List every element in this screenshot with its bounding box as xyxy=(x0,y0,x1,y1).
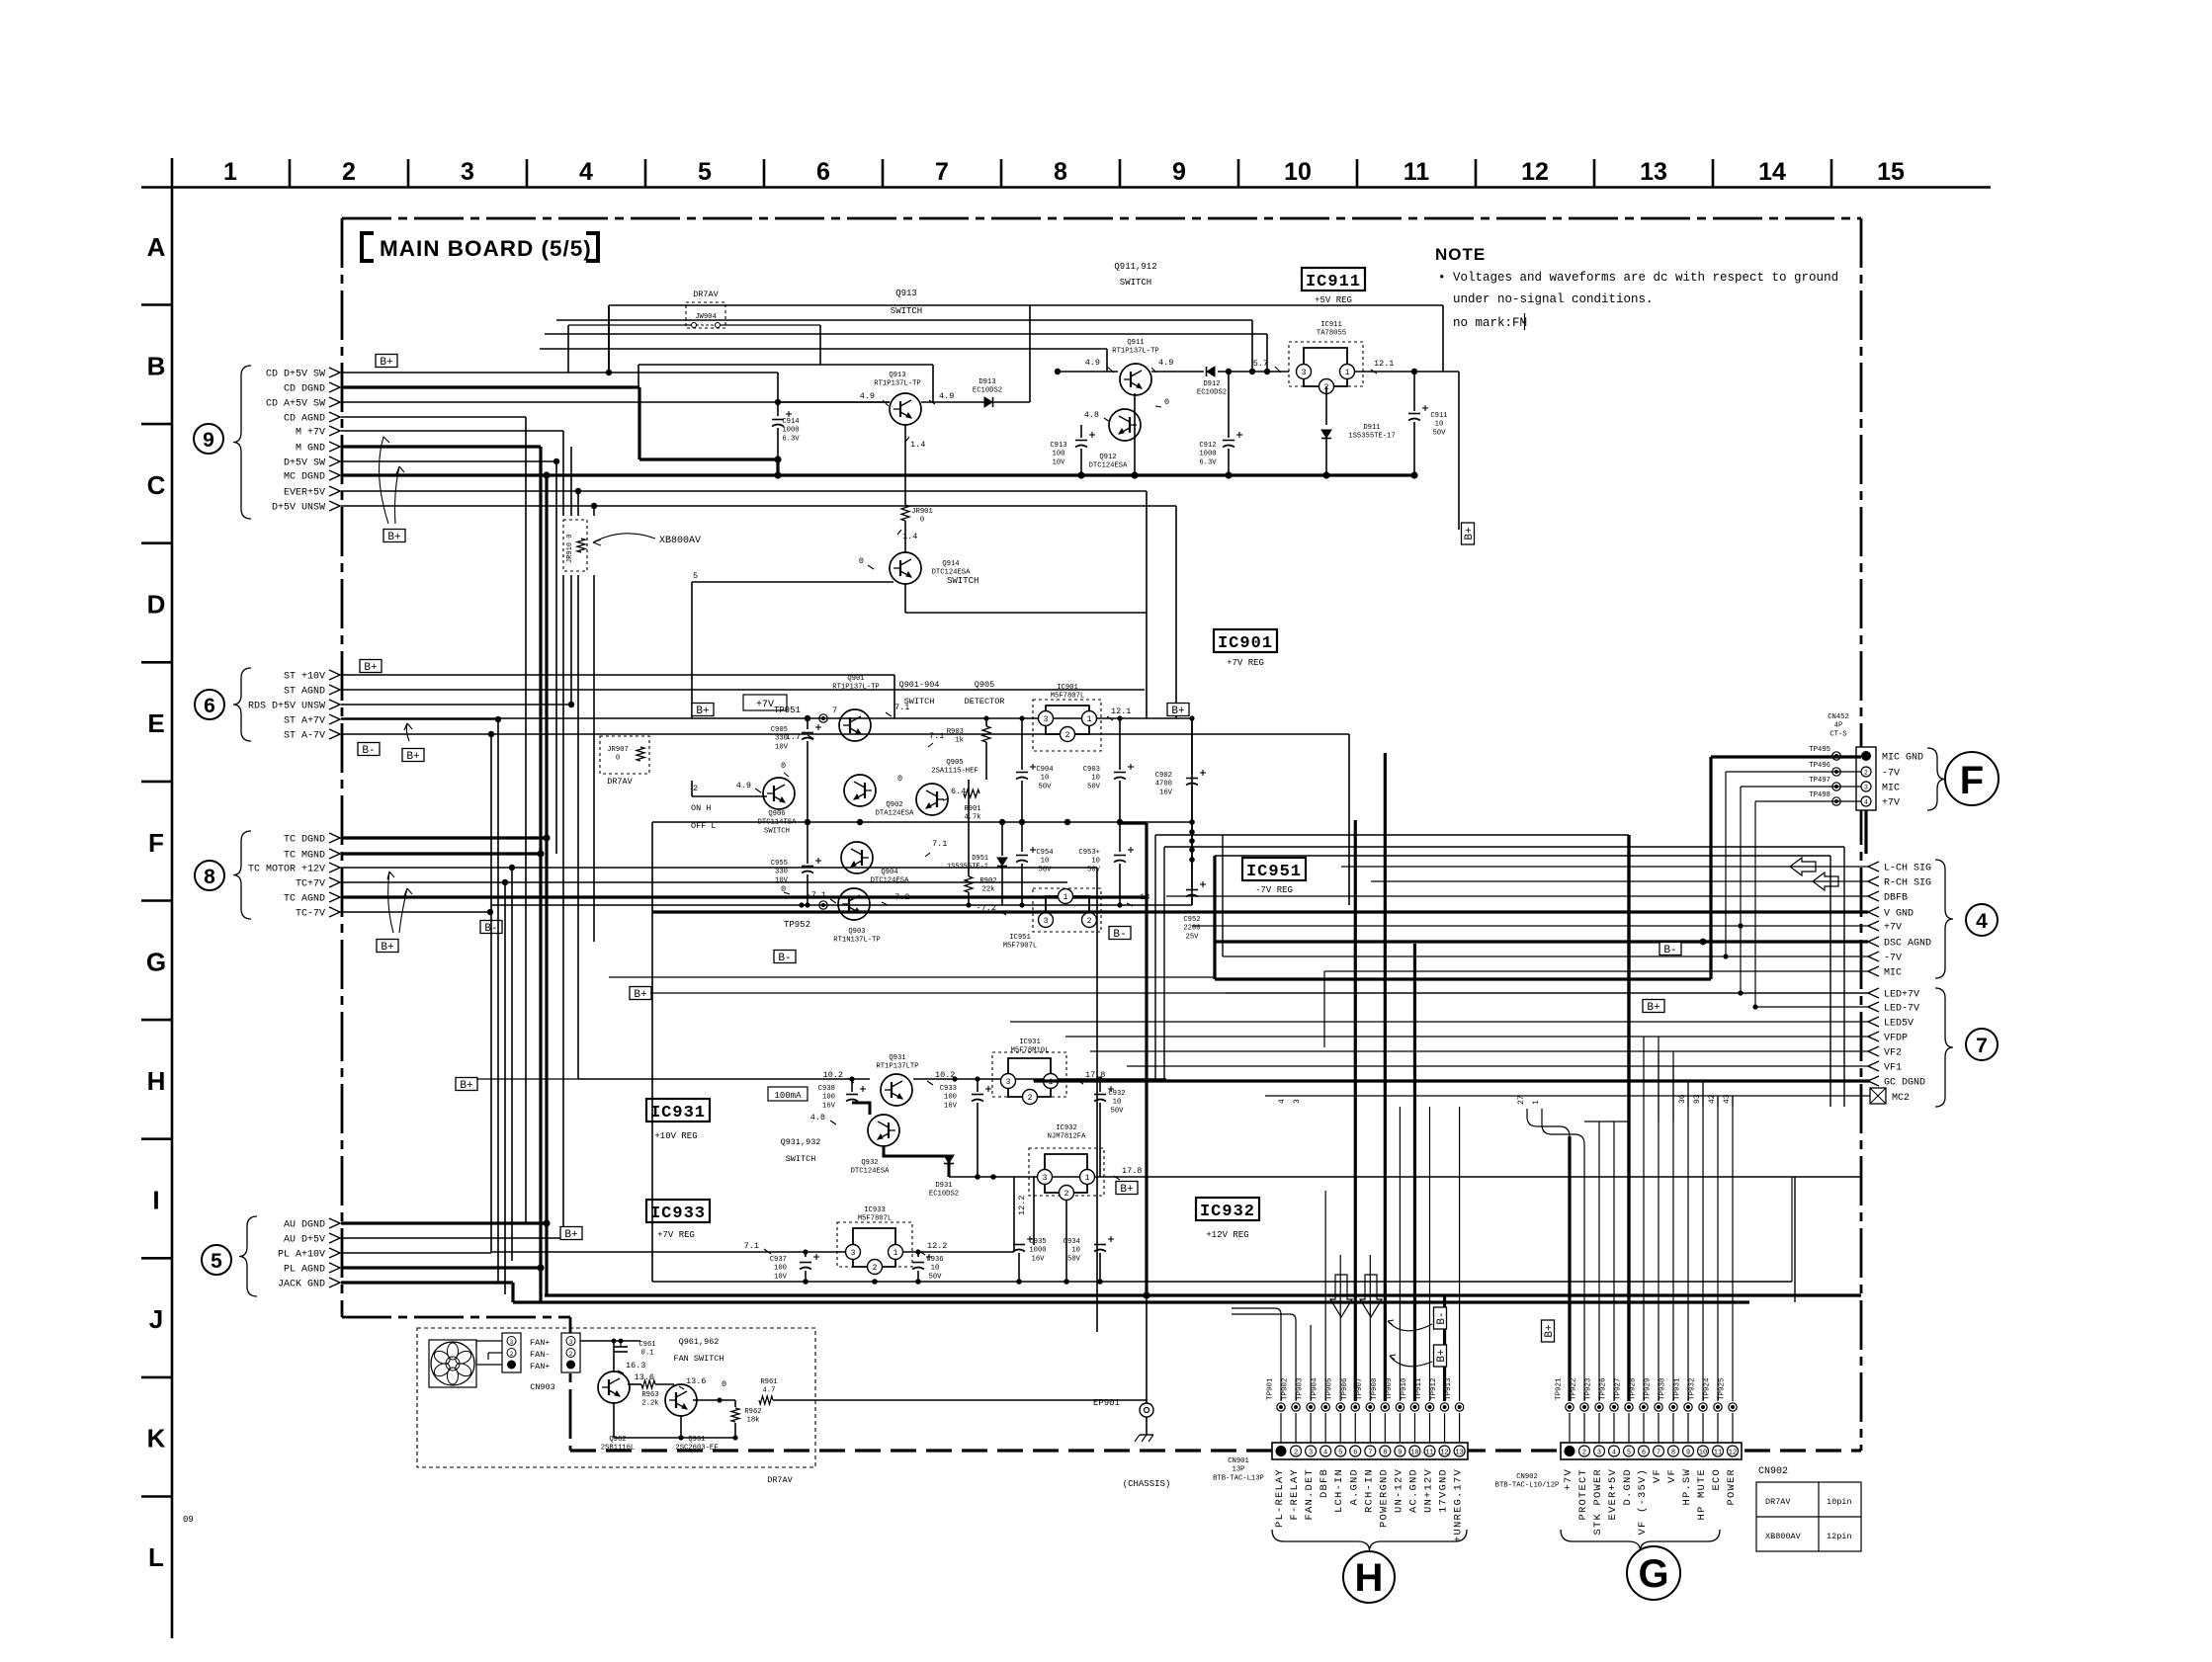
svg-text:10: 10 xyxy=(1091,775,1100,783)
svg-text:2: 2 xyxy=(873,1264,878,1273)
svg-text:JR910 0: JR910 0 xyxy=(566,535,574,563)
CN902 pin 9 HP.SW xyxy=(1683,1446,1694,1456)
svg-text:DTC124ESA: DTC124ESA xyxy=(1089,462,1129,470)
svg-text:6: 6 xyxy=(816,158,830,186)
CN902 pin 6 VF (-35V) xyxy=(1639,1446,1650,1456)
CN901 pin 11 UN+12V xyxy=(1424,1446,1435,1456)
svg-text:2SC2603-EF: 2SC2603-EF xyxy=(675,1445,718,1453)
wires fan switch xyxy=(628,1383,641,1385)
svg-text:10.2: 10.2 xyxy=(823,1070,843,1080)
svg-text:4700: 4700 xyxy=(1155,781,1172,789)
top ruler ticks xyxy=(289,159,292,188)
terminal -7V (group 4) xyxy=(1868,952,1879,961)
wire ST A+7V joins +7V rail xyxy=(341,718,498,720)
transistor Q905 detector xyxy=(916,784,948,815)
capacitor C903 xyxy=(1119,718,1121,770)
svg-text:EVER+5V: EVER+5V xyxy=(284,488,325,499)
hollow arrow L-CH (points left) xyxy=(1790,858,1816,875)
svg-text:TP495: TP495 xyxy=(1809,746,1830,754)
svg-text:0: 0 xyxy=(616,755,620,763)
wire B- stub xyxy=(796,948,909,950)
svg-text:7: 7 xyxy=(1976,1035,1988,1057)
svg-text:DBFB: DBFB xyxy=(1884,893,1908,904)
group 7 circle xyxy=(1966,1029,1998,1060)
svg-text:17VGND: 17VGND xyxy=(1438,1468,1450,1513)
bottom bus row I xyxy=(652,1281,1792,1283)
svg-text:DTC124ESA: DTC124ESA xyxy=(871,877,910,885)
group4 wire +7V xyxy=(1192,925,1868,927)
svg-text:11: 11 xyxy=(1714,1450,1722,1457)
svg-text:C: C xyxy=(147,470,166,500)
svg-text:TP931: TP931 xyxy=(1674,1377,1682,1400)
svg-text:2SB1116L: 2SB1116L xyxy=(601,1445,636,1453)
svg-text:+7V REG: +7V REG xyxy=(657,1230,695,1240)
svg-text:TP926: TP926 xyxy=(1600,1377,1608,1400)
svg-text:8: 8 xyxy=(1383,1450,1387,1457)
svg-text:G: G xyxy=(1638,1552,1668,1596)
pointer arrows group8 xyxy=(387,872,394,933)
svg-text:ST +10V: ST +10V xyxy=(284,672,325,683)
capacitor C904 xyxy=(1021,718,1023,770)
svg-text:TP903: TP903 xyxy=(1297,1377,1305,1400)
svg-text:under no-signal conditions.: under no-signal conditions. xyxy=(1453,292,1654,306)
svg-text:TP932: TP932 xyxy=(1689,1377,1697,1400)
svg-text:6: 6 xyxy=(1642,1450,1646,1457)
LED5V long wire vertical xyxy=(1009,1022,1011,1079)
flag B- below group 6 xyxy=(358,743,380,758)
svg-text:8: 8 xyxy=(1054,158,1067,186)
svg-text:3: 3 xyxy=(1293,1099,1302,1104)
riser pin number labels with bends xyxy=(1527,1109,1570,1136)
svg-text:3: 3 xyxy=(1302,369,1307,377)
svg-text:Q931,932: Q931,932 xyxy=(781,1137,821,1147)
svg-text:TP907: TP907 xyxy=(1356,1377,1364,1400)
svg-text:Q932: Q932 xyxy=(861,1159,878,1167)
svg-text:• Voltages and waveforms are d: • Voltages and waveforms are dc with res… xyxy=(1438,271,1838,285)
svg-text:4: 4 xyxy=(1612,1450,1616,1457)
wire Q931 collector to IC931 pkg xyxy=(913,1078,1166,1080)
svg-text:IC951: IC951 xyxy=(1009,934,1031,942)
svg-text:TP952: TP952 xyxy=(784,920,810,930)
svg-text:MC DGND: MC DGND xyxy=(284,472,325,483)
svg-text:4.9: 4.9 xyxy=(736,781,751,790)
svg-text:7: 7 xyxy=(1657,1450,1660,1457)
wire down right of IC911 xyxy=(1458,372,1460,530)
svg-text:4.9: 4.9 xyxy=(939,391,954,401)
svg-text:3: 3 xyxy=(461,158,474,186)
svg-text:09: 09 xyxy=(183,1515,194,1525)
svg-text:TP925: TP925 xyxy=(1719,1377,1727,1400)
svg-text:VF1: VF1 xyxy=(1884,1063,1902,1074)
svg-text:M5F7807L: M5F7807L xyxy=(1051,693,1085,701)
svg-text:Q913: Q913 xyxy=(895,289,917,298)
svg-text:50V: 50V xyxy=(1039,866,1053,873)
svg-text:3: 3 xyxy=(1597,1450,1601,1457)
svg-text:8: 8 xyxy=(204,866,215,888)
svg-text:4.7: 4.7 xyxy=(763,1387,776,1395)
svg-text:3: 3 xyxy=(1043,1174,1048,1183)
svg-text:C955: C955 xyxy=(771,860,788,868)
wire Q911 row xyxy=(1058,371,1118,373)
svg-text:-7.1: -7.1 xyxy=(807,890,826,900)
pointer arrow group6 xyxy=(404,723,412,741)
transistor Q911 xyxy=(1120,364,1151,395)
wire D+5V UNSW xyxy=(341,505,1176,507)
svg-text:NJM7812FA: NJM7812FA xyxy=(1048,1133,1087,1141)
svg-text:M GND: M GND xyxy=(296,444,325,455)
svg-text:FAN-: FAN- xyxy=(530,1350,550,1360)
terminal MIC (group 4) xyxy=(1868,966,1879,976)
svg-text:4: 4 xyxy=(1323,1450,1327,1457)
svg-text:2: 2 xyxy=(1864,770,1868,777)
svg-text:M +7V: M +7V xyxy=(296,428,325,439)
wire EVER+5V xyxy=(341,490,1147,492)
svg-text:IC931: IC931 xyxy=(650,1104,706,1122)
wire IC933 out xyxy=(903,1251,1014,1253)
CN452 stem xyxy=(1864,810,1867,854)
svg-text:0: 0 xyxy=(920,517,924,525)
svg-text:12: 12 xyxy=(1440,1450,1448,1457)
svg-text:25V: 25V xyxy=(1186,933,1200,941)
svg-text:5: 5 xyxy=(1338,1450,1342,1457)
svg-text:DETECTOR: DETECTOR xyxy=(965,697,1005,706)
svg-text:10: 10 xyxy=(1435,421,1444,429)
connector group 6 circle xyxy=(195,690,224,719)
svg-text:EC10DS2: EC10DS2 xyxy=(973,387,1002,395)
svg-text:TP498: TP498 xyxy=(1809,791,1830,799)
svg-text:Q902: Q902 xyxy=(886,801,902,809)
svg-text:1S5355TE-1: 1S5355TE-1 xyxy=(947,864,988,872)
svg-text:EC10DS2: EC10DS2 xyxy=(1197,389,1227,397)
svg-text:LED-7V: LED-7V xyxy=(1884,1004,1919,1015)
IC911 label box xyxy=(1302,268,1365,291)
resistor R901 xyxy=(964,789,979,797)
wire TC DGND (thick) xyxy=(341,836,547,839)
svg-text:SWITCH: SWITCH xyxy=(764,827,790,835)
svg-text:C961: C961 xyxy=(638,1341,655,1349)
svg-text:R-CH SIG: R-CH SIG xyxy=(1884,878,1931,889)
connector group 6 brace xyxy=(233,668,251,741)
I-row bus (B+ 17.8) xyxy=(949,1176,1861,1178)
svg-text:D913: D913 xyxy=(978,378,995,386)
svg-text:FAN.DET: FAN.DET xyxy=(1304,1468,1316,1521)
svg-text:10V: 10V xyxy=(775,876,789,884)
svg-text:RT1P137LTP: RT1P137LTP xyxy=(876,1063,918,1071)
group7 wire LED-7V xyxy=(1755,1006,1868,1008)
svg-text:TC MOTOR +12V: TC MOTOR +12V xyxy=(248,865,325,875)
wire 5 into Q914 xyxy=(692,581,893,583)
svg-text:AU DGND: AU DGND xyxy=(284,1220,325,1231)
svg-text:8: 8 xyxy=(1671,1450,1675,1457)
group 4 circle xyxy=(1966,904,1998,936)
svg-text:C913: C913 xyxy=(1050,442,1066,450)
svg-text:12.1: 12.1 xyxy=(1111,706,1131,716)
svg-text:NOTE: NOTE xyxy=(1435,245,1486,264)
capacitor C937 xyxy=(805,1252,807,1257)
svg-text:IC933: IC933 xyxy=(864,1206,886,1214)
wire PL AGND (thick) xyxy=(341,1266,541,1269)
group7 wire VF1 xyxy=(1127,1065,1868,1067)
terminal +7V (group 4) xyxy=(1868,921,1879,931)
capacitor C914 xyxy=(777,402,779,416)
svg-text:330: 330 xyxy=(775,735,788,743)
svg-text:0: 0 xyxy=(1164,397,1169,407)
svg-text:9: 9 xyxy=(1172,158,1186,186)
svg-text:0: 0 xyxy=(781,761,786,771)
group4 wire DSC AGND thick xyxy=(1215,940,1868,943)
wire ST +10V xyxy=(341,674,894,676)
transistor Q931 xyxy=(881,1074,912,1106)
svg-text:PL AGND: PL AGND xyxy=(284,1265,325,1276)
svg-text:1: 1 xyxy=(1085,1174,1090,1183)
svg-text:11: 11 xyxy=(1425,1450,1433,1457)
svg-text:10: 10 xyxy=(931,1265,940,1273)
wire Q913 emitter to D913 xyxy=(921,401,984,403)
svg-text:Q903: Q903 xyxy=(848,928,865,936)
resistor R903 xyxy=(985,718,987,726)
svg-text:16.3: 16.3 xyxy=(626,1361,645,1371)
svg-text:6: 6 xyxy=(1353,1450,1357,1457)
svg-text:27: 27 xyxy=(1517,1095,1526,1105)
terminal DBFB (group 4) xyxy=(1868,891,1879,901)
svg-text:IC901: IC901 xyxy=(1218,634,1273,653)
CN452 pin 1 MIC GND xyxy=(1861,751,1871,761)
svg-text:4P: 4P xyxy=(1834,722,1843,730)
svg-text:F: F xyxy=(1960,759,1984,802)
svg-text:100: 100 xyxy=(944,1094,957,1102)
svg-text:ON H: ON H xyxy=(691,803,711,813)
svg-text:IC911: IC911 xyxy=(1306,273,1361,291)
svg-text:-7V: -7V xyxy=(1884,954,1902,964)
transistor Q902 xyxy=(844,775,876,806)
svg-text:C902: C902 xyxy=(1155,772,1172,780)
IC932 pin2 down xyxy=(1065,1201,1067,1282)
svg-text:C914: C914 xyxy=(782,418,799,426)
IC933 label box xyxy=(646,1200,710,1222)
terminal R-CH SIG (group 4) xyxy=(1868,876,1879,886)
op-amp IC911 package (TA78055 regulator) xyxy=(1289,342,1363,386)
CN901 pin 6 A.GND xyxy=(1350,1446,1361,1456)
svg-text:TP908: TP908 xyxy=(1371,1377,1379,1400)
svg-text:2: 2 xyxy=(1087,917,1092,926)
flag B+ near CN901 xyxy=(1434,1345,1449,1367)
svg-text:MIC GND: MIC GND xyxy=(1882,753,1923,764)
svg-text:50V: 50V xyxy=(1087,866,1101,873)
DBFB vertical xyxy=(1165,896,1167,1079)
capacitor C938 xyxy=(851,1079,853,1092)
wire bundle right-middle nest xyxy=(1145,823,1148,1295)
group4 wire L-CH xyxy=(1341,866,1868,868)
title MAIN BOARD (5/5) xyxy=(362,233,374,261)
svg-text:10: 10 xyxy=(1041,775,1050,783)
wire AU DGND (thick) xyxy=(341,1221,547,1224)
svg-text:100: 100 xyxy=(774,1265,787,1273)
svg-text:D912: D912 xyxy=(1203,380,1220,388)
svg-text:MAIN BOARD (5/5): MAIN BOARD (5/5) xyxy=(380,236,592,261)
flag B+ rotated below IC911 output xyxy=(1462,523,1477,544)
svg-text:PL-RELAY: PL-RELAY xyxy=(1274,1468,1286,1528)
svg-text:TC DGND: TC DGND xyxy=(284,835,325,846)
svg-text:Q904: Q904 xyxy=(881,869,897,876)
svg-text:DSC AGND: DSC AGND xyxy=(1884,939,1931,950)
interface circle G xyxy=(1627,1546,1680,1600)
svg-text:TP929: TP929 xyxy=(1645,1377,1653,1400)
svg-text:L: L xyxy=(148,1542,164,1572)
capacitor C954 xyxy=(1021,822,1023,852)
svg-text:TP496: TP496 xyxy=(1809,762,1830,770)
svg-text:C954: C954 xyxy=(1036,849,1053,857)
svg-text:+12V REG: +12V REG xyxy=(1206,1230,1248,1240)
svg-text:1000: 1000 xyxy=(1029,1247,1046,1255)
JR907 jumper dashed box xyxy=(600,736,649,774)
terminal V GND (group 4) xyxy=(1868,907,1879,917)
CN901 pin 9 UN-12V xyxy=(1395,1446,1405,1456)
svg-text:FAN+: FAN+ xyxy=(530,1338,550,1348)
svg-text:G: G xyxy=(146,947,166,976)
svg-text:10V: 10V xyxy=(775,743,789,751)
svg-text:4: 4 xyxy=(579,158,593,186)
svg-text:B-: B- xyxy=(362,745,375,757)
svg-text:SWITCH: SWITCH xyxy=(786,1154,816,1164)
svg-text:CT-S: CT-S xyxy=(1829,730,1846,738)
CN902 pin 2 PROTECT xyxy=(1579,1446,1590,1456)
svg-text:12.2: 12.2 xyxy=(1017,1196,1027,1215)
middle emitter bus xyxy=(652,821,1192,823)
test point TP495 xyxy=(1832,752,1840,760)
svg-text:VF (-35V): VF (-35V) xyxy=(1637,1468,1649,1536)
svg-text:R901: R901 xyxy=(964,805,980,813)
svg-text:DR7AV: DR7AV xyxy=(607,777,633,787)
svg-text:SWITCH: SWITCH xyxy=(1120,278,1151,288)
svg-text:POWERGND: POWERGND xyxy=(1378,1468,1390,1528)
test point TP497 xyxy=(1832,783,1840,790)
svg-text:CN903: CN903 xyxy=(530,1382,555,1392)
svg-text:TP909: TP909 xyxy=(1386,1377,1394,1400)
svg-text:B-: B- xyxy=(1113,929,1126,941)
group7 wire MC2 xyxy=(1265,1095,1870,1097)
svg-text:STK POWER: STK POWER xyxy=(1592,1468,1604,1536)
svg-text:TP922: TP922 xyxy=(1571,1377,1578,1400)
transistor Q962 xyxy=(598,1371,630,1403)
svg-text:B+: B+ xyxy=(1647,1002,1659,1014)
svg-text:IC951: IC951 xyxy=(1246,863,1302,881)
chassis ground symbol xyxy=(1140,1434,1153,1436)
svg-text:4.8: 4.8 xyxy=(1084,410,1099,420)
svg-text:R963: R963 xyxy=(641,1391,658,1399)
svg-text:13: 13 xyxy=(1640,158,1667,186)
transistor Q906 xyxy=(763,778,795,809)
board border left edge xyxy=(341,218,344,1317)
svg-text:K: K xyxy=(147,1424,166,1454)
svg-text:CD A+5V SW: CD A+5V SW xyxy=(266,399,325,410)
svg-text:C911: C911 xyxy=(1430,412,1447,420)
flag B+ above group 6 xyxy=(360,660,382,675)
svg-text:C938: C938 xyxy=(818,1085,835,1093)
svg-text:PL A+10V: PL A+10V xyxy=(278,1250,325,1261)
flag B+ below group 9 xyxy=(383,530,405,544)
svg-text:D951: D951 xyxy=(972,855,988,863)
svg-text:FAN SWITCH: FAN SWITCH xyxy=(673,1354,723,1364)
CN902 pin 12 POWER xyxy=(1728,1446,1739,1456)
svg-text:BTB-TAC-L13P: BTB-TAC-L13P xyxy=(1213,1474,1264,1482)
svg-text:C904: C904 xyxy=(1036,766,1053,774)
capacitor C933 xyxy=(977,1079,978,1092)
wire JACK GND (thick route) xyxy=(341,1281,513,1284)
svg-text:Q913: Q913 xyxy=(889,372,905,379)
svg-text:RCH-IN: RCH-IN xyxy=(1363,1468,1375,1513)
flag B+ above group 9 xyxy=(376,355,397,370)
svg-text:+7V: +7V xyxy=(1884,923,1902,934)
svg-text:VF2: VF2 xyxy=(1884,1048,1902,1059)
flag B- near CN901 xyxy=(1434,1307,1449,1329)
svg-text:TP913: TP913 xyxy=(1445,1377,1453,1400)
svg-text:PROTECT: PROTECT xyxy=(1577,1468,1589,1521)
svg-text:TP923: TP923 xyxy=(1585,1377,1593,1400)
svg-text:17.8: 17.8 xyxy=(1122,1166,1142,1176)
svg-text:TP951: TP951 xyxy=(774,706,801,715)
svg-text:3: 3 xyxy=(1006,1078,1011,1087)
svg-text:TP921: TP921 xyxy=(1556,1377,1564,1400)
transistor Q912 xyxy=(1109,409,1141,441)
svg-text:EVER+5V: EVER+5V xyxy=(1607,1468,1619,1521)
svg-text:13.6: 13.6 xyxy=(686,1376,706,1386)
flag B- group 8 area xyxy=(480,921,502,936)
capacitor C952 xyxy=(1191,822,1193,887)
svg-text:3: 3 xyxy=(1309,1450,1313,1457)
svg-text:12.2: 12.2 xyxy=(927,1241,947,1251)
top ruler line xyxy=(141,186,1991,189)
svg-text:DBFB: DBFB xyxy=(1319,1468,1330,1498)
wire 2 ON H OFF L xyxy=(692,795,767,797)
svg-text:2: 2 xyxy=(1064,1190,1069,1199)
wire Q932 thick link xyxy=(852,1103,870,1115)
pointer arrows to flags xyxy=(1388,1320,1432,1331)
svg-text:C932: C932 xyxy=(1108,1090,1125,1098)
svg-text:FAN+: FAN+ xyxy=(530,1362,550,1371)
svg-text:H: H xyxy=(147,1066,166,1096)
svg-text:2: 2 xyxy=(569,1351,573,1358)
svg-text:XB800AV: XB800AV xyxy=(659,536,701,546)
svg-text:+10V REG: +10V REG xyxy=(654,1131,697,1141)
svg-text:+7V: +7V xyxy=(1563,1468,1574,1491)
svg-text:1: 1 xyxy=(1345,369,1350,377)
connector CN902 body xyxy=(1561,1443,1742,1459)
CN902 pin 4 EVER+5V xyxy=(1609,1446,1620,1456)
CN452 pin 3 MIC xyxy=(1861,782,1871,791)
svg-text:ST A+7V: ST A+7V xyxy=(284,716,325,727)
wire CD A+5V SW xyxy=(341,401,890,403)
capacitor C953 xyxy=(1119,822,1121,852)
group7 wire VFDP xyxy=(1065,1036,1868,1038)
transistor Q961 xyxy=(665,1384,697,1416)
svg-text:3: 3 xyxy=(510,1339,514,1346)
svg-text:7: 7 xyxy=(935,158,949,186)
brace group 7 xyxy=(1935,988,1953,1107)
group4 wire R-CH xyxy=(1371,880,1868,882)
svg-text:TP910: TP910 xyxy=(1401,1377,1408,1400)
svg-text:+UNREG.17V: +UNREG.17V xyxy=(1453,1468,1465,1542)
IC931 label box xyxy=(646,1099,710,1122)
svg-text:B+: B+ xyxy=(380,357,392,369)
CN901 pin 12 17VGND xyxy=(1439,1446,1450,1456)
svg-text:100mA: 100mA xyxy=(774,1091,802,1101)
svg-text:10V: 10V xyxy=(1053,458,1066,466)
connector CN901 body xyxy=(1272,1443,1468,1459)
svg-text:UN+12V: UN+12V xyxy=(1423,1468,1435,1513)
terminal LED+7V (group 7) xyxy=(1868,988,1879,998)
interface circle F xyxy=(1945,752,1999,805)
CN452 pin 2 -7V xyxy=(1861,767,1871,777)
